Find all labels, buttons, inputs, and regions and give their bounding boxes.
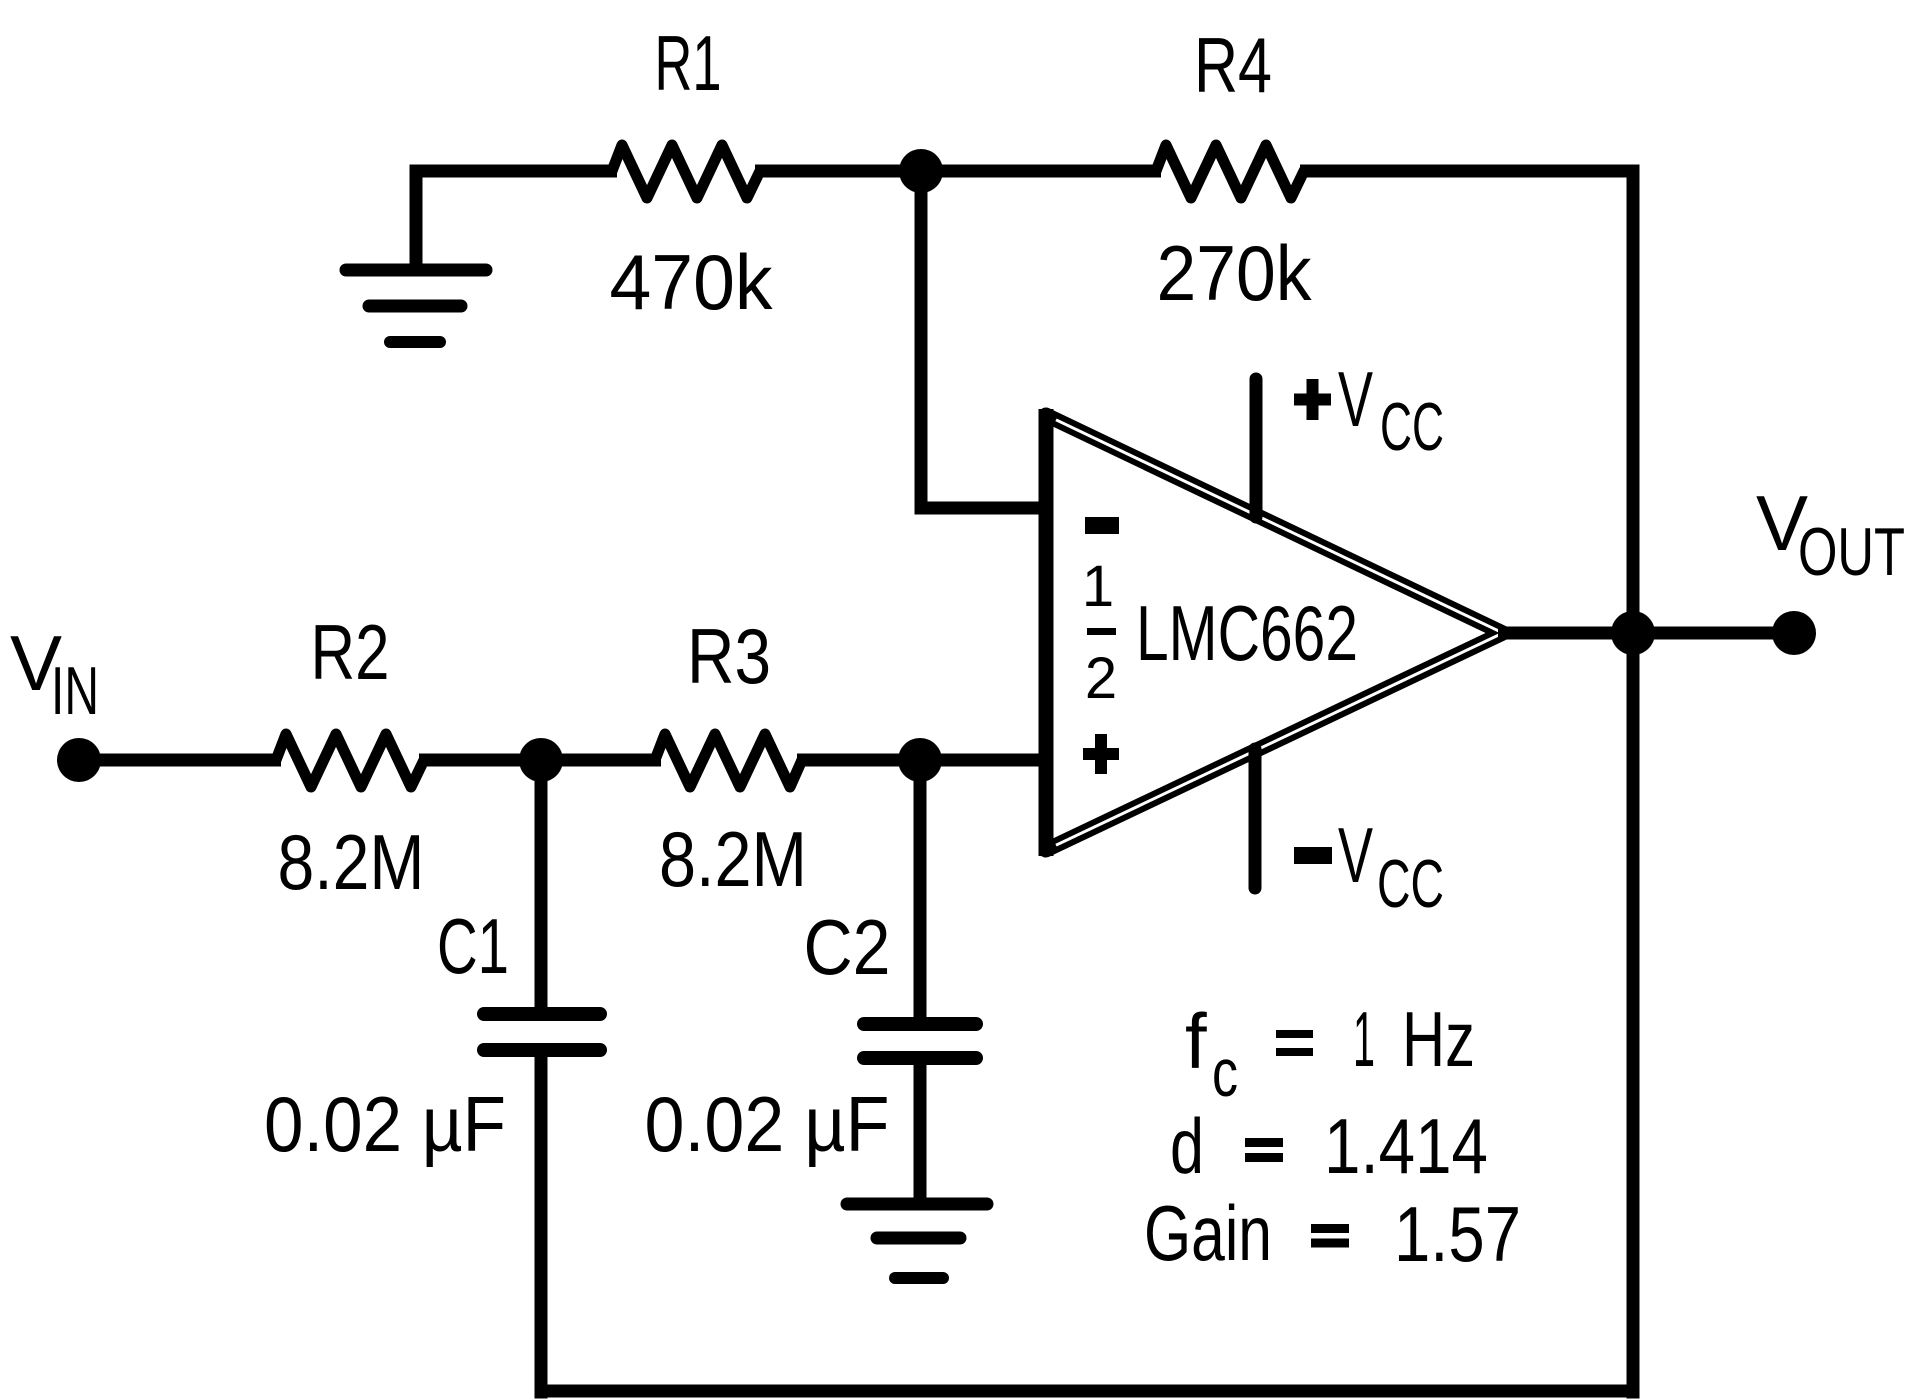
svg-text:Gain: Gain: [1144, 1189, 1272, 1277]
node: feedback junction: [899, 149, 943, 193]
svg-text:d: d: [1170, 1102, 1204, 1190]
svg-text:IN: IN: [51, 653, 99, 729]
svg-text:1.57: 1.57: [1394, 1190, 1521, 1278]
ground (under C2): [847, 1204, 987, 1278]
svg-text:270k: 270k: [1157, 229, 1313, 317]
wire: R2 to R3 through C1 node: [419, 754, 661, 767]
op-amp plus input marker: [1083, 734, 1119, 774]
wire: C2 drop: [914, 760, 927, 1022]
+VCC supply pin: [1250, 379, 1263, 517]
resistor R4: [1156, 145, 1304, 198]
svg-text:C1: C1: [437, 902, 509, 990]
node: C2 junction: [898, 738, 942, 782]
svg-text:R2: R2: [311, 608, 390, 696]
ground (top-left): [346, 270, 486, 342]
svg-text:LMC662: LMC662: [1136, 589, 1358, 677]
op-amp minus input marker: [1085, 517, 1119, 534]
capacitor C2: [864, 1024, 976, 1058]
op-amp U1 LMC662: [1046, 409, 1503, 856]
wire: C1 to bottom rail: [535, 1052, 548, 1399]
annotation d = 1.414: [1170, 1102, 1488, 1190]
wire: R3 to op-amp through C2 node: [797, 754, 1044, 767]
wire: top middle between R1 and R4: [755, 165, 1161, 178]
svg-text:1: 1: [1082, 554, 1114, 619]
wire: VIN to R2: [79, 754, 281, 767]
svg-text:470k: 470k: [610, 238, 774, 326]
annotation fc = 1 Hz: [1185, 995, 1475, 1111]
wire: top-left segment from ground corner to R1: [410, 165, 618, 178]
VOUT label: [1756, 479, 1905, 590]
svg-text:V: V: [1338, 355, 1373, 443]
svg-text:2: 2: [1085, 646, 1117, 711]
wire: C1 drop: [535, 760, 548, 1012]
svg-text:1: 1: [1353, 995, 1375, 1083]
op-amp 1/2 fraction: [1082, 554, 1117, 711]
svg-text:8.2M: 8.2M: [278, 818, 425, 906]
svg-text:V: V: [1338, 811, 1373, 899]
wire: op-amp output to VOUT: [1498, 627, 1794, 640]
resistor R1: [612, 145, 760, 198]
svg-text:8.2M: 8.2M: [659, 815, 807, 903]
terminal VOUT: [1772, 611, 1816, 655]
wire: right rail down to bottom: [1627, 171, 1640, 1399]
svg-text:CC: CC: [1380, 389, 1444, 465]
-VCC supply pin: [1249, 749, 1262, 888]
wire: C2 to ground: [914, 1060, 927, 1199]
svg-text:1.414: 1.414: [1324, 1102, 1488, 1190]
wire: ground riser: [410, 166, 423, 266]
svg-text:Hz: Hz: [1402, 995, 1475, 1083]
resistor R2: [276, 734, 424, 787]
wire: inverting input link from node down and right: [921, 171, 1044, 508]
svg-text:c: c: [1212, 1035, 1238, 1111]
node: output junction: [1611, 611, 1655, 655]
-VCC label: [1294, 811, 1444, 922]
svg-text:R4: R4: [1194, 21, 1272, 109]
wire: top right segment to corner: [1300, 165, 1640, 178]
svg-text:CC: CC: [1377, 846, 1444, 922]
svg-text:f: f: [1185, 997, 1207, 1085]
svg-text:0.02 µF: 0.02 µF: [264, 1080, 506, 1168]
resistor R3: [655, 734, 802, 787]
node: C1 junction: [519, 738, 563, 782]
annotation Gain = 1.57: [1144, 1189, 1521, 1278]
capacitor C1: [484, 1014, 600, 1050]
+VCC label: [1294, 355, 1444, 465]
svg-text:C2: C2: [804, 903, 891, 991]
terminal VIN: [57, 738, 101, 782]
svg-text:OUT: OUT: [1798, 514, 1905, 590]
svg-text:0.02 µF: 0.02 µF: [645, 1080, 890, 1168]
svg-text:R3: R3: [687, 612, 771, 700]
VIN label: [10, 619, 99, 729]
wire: bottom rail: [535, 1385, 1640, 1398]
svg-text:R1: R1: [655, 19, 722, 107]
